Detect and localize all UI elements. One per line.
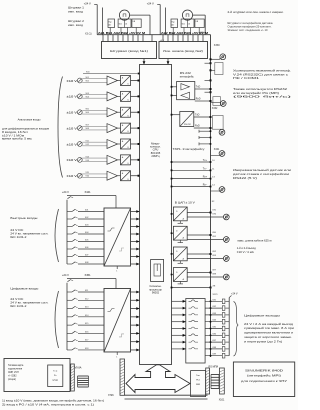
- svg-text:Tx+: Tx+: [203, 159, 208, 162]
- svg-text:X441: X441: [85, 190, 92, 194]
- svg-text:Штурвал 1: Штурвал 1: [68, 6, 85, 10]
- svg-text:одновременном включении и: одновременном включении и: [244, 332, 294, 335]
- svg-text:TxD: TxD: [196, 86, 201, 89]
- svg-text:(умд): (умд): [53, 379, 59, 381]
- svg-text:Лин. шкала (вход №2): Лин. шкала (вход №2): [163, 49, 203, 53]
- svg-text:В ЦАП ± 10 V: В ЦАП ± 10 V: [175, 201, 195, 204]
- svg-text:+24 V: +24 V: [231, 293, 238, 296]
- svg-text:PG МПИ: PG МПИ: [209, 365, 219, 368]
- svg-text:IEC 1131-2: IEC 1131-2: [10, 236, 27, 239]
- svg-text:или интерфейс PG (MPI): или интерфейс PG (MPI): [233, 92, 279, 95]
- svg-text:+24 V: +24 V: [84, 1, 91, 5]
- svg-text:подключения: подключения: [8, 369, 23, 371]
- svg-text:Акт: Акт: [172, 23, 175, 26]
- svg-text:MM: MM: [196, 384, 200, 386]
- svg-text:Rx+: Rx+: [203, 176, 208, 179]
- svg-text:для подключения к ЧПУ: для подключения к ЧПУ: [241, 379, 288, 383]
- svg-text:Цифровые выходы: Цифровые выходы: [244, 313, 280, 317]
- svg-text:2) вход к PG / ±10 V (4 мА, пе: 2) вход к PG / ±10 V (4 мА, перегрузка в…: [2, 403, 94, 406]
- svg-text:ТЗР1. К интерфейсу: ТЗР1. К интерфейсу: [173, 148, 206, 151]
- svg-text:датчик станка с интерфейсом: датчик станка с интерфейсом: [233, 173, 289, 176]
- svg-text:Пул: Пул: [172, 21, 175, 23]
- svg-text:±10 V: ±10 V: [67, 111, 78, 115]
- svg-text:01: 01: [188, 23, 190, 25]
- svg-text:96002: 96002: [152, 291, 160, 295]
- svg-text:±10 V: ±10 V: [67, 95, 78, 99]
- svg-text:+24 V: +24 V: [147, 1, 154, 5]
- svg-text:(9600 бит/с): (9600 бит/с): [233, 96, 292, 99]
- svg-text:X330: X330: [214, 44, 220, 47]
- svg-text:+24 V: +24 V: [199, 32, 206, 35]
- svg-text:601: 601: [182, 23, 185, 25]
- svg-text:TxD: TxD: [195, 114, 200, 117]
- svg-text:+/- 0282: +/- 0282: [8, 376, 17, 378]
- svg-text:X341: X341: [214, 148, 220, 151]
- svg-text:X121: X121: [213, 294, 219, 296]
- svg-text:макс. длина кабеля 625 м: макс. длина кабеля 625 м: [238, 240, 272, 243]
- svg-text:RS422 (5 V): RS422 (5 V): [233, 177, 257, 180]
- svg-text:Tx–: Tx–: [203, 167, 208, 170]
- svg-text:±10 V: ±10 V: [67, 142, 78, 146]
- svg-text:RxD: RxD: [196, 98, 201, 101]
- svg-text:Цифровые входы: Цифровые входы: [10, 287, 38, 291]
- svg-text:V9 8A: V9 8A: [75, 367, 82, 370]
- svg-text:время преобр. 5 мкс: время преобр. 5 мкс: [2, 138, 33, 141]
- svg-text:±10 V: ±10 V: [67, 158, 78, 162]
- svg-text:Аналоговые входы: Аналоговые входы: [18, 118, 41, 122]
- svg-text:X726: X726: [108, 394, 114, 397]
- svg-text:X101: X101: [219, 398, 225, 401]
- svg-text:1) вход ±10 V (макс. диапазон: 1) вход ±10 V (макс. диапазон входа, инт…: [2, 399, 104, 402]
- svg-text:+24 V: +24 V: [62, 273, 69, 277]
- svg-text:имп. вход: имп. вход: [68, 11, 84, 14]
- svg-text:±10 V: ±10 V: [67, 126, 78, 130]
- svg-text:Rx–: Rx–: [203, 184, 208, 187]
- svg-text:ПК / COM1: ПК / COM1: [233, 77, 260, 80]
- svg-text:Пул: Пул: [109, 21, 112, 23]
- svg-text:20МГц: 20МГц: [151, 154, 160, 158]
- svg-text:Отдельная периферия 25-контакт: Отдельная периферия 25-контактн.: [228, 26, 272, 29]
- svg-text:Типовая карта: Типовая карта: [8, 365, 24, 367]
- svg-text:RxD: RxD: [195, 124, 200, 127]
- svg-text:+24 V: +24 V: [62, 190, 69, 194]
- svg-text:RS 232: RS 232: [180, 72, 192, 75]
- svg-text:RS-232: RS-232: [184, 124, 192, 126]
- svg-text:PkJ: PkJ: [196, 379, 200, 381]
- svg-text:24 V / 2 А на каждый выход: 24 V / 2 А на каждый выход: [244, 323, 294, 326]
- svg-text:СМР, VCП: СМР, VCП: [8, 372, 19, 374]
- svg-text:Штурвал (вход №1): Штурвал (вход №1): [110, 49, 148, 53]
- svg-text:защита от короткого замык.: защита от короткого замык.: [244, 336, 293, 339]
- svg-text:интерфейс: интерфейс: [180, 76, 195, 79]
- svg-text:1-й и 2-й выход: 1-й и 2-й выход: [237, 247, 257, 250]
- svg-text:SINUMERIK 840D: SINUMERIK 840D: [245, 369, 283, 373]
- svg-text:Усовершенствованный интерф.: Усовершенствованный интерф.: [233, 70, 291, 73]
- svg-text:±10 V / 4 мА: ±10 V / 4 мА: [237, 251, 254, 254]
- svg-text:±10 V: ±10 V: [67, 174, 78, 178]
- svg-text:Штурвал 2: Штурвал 2: [68, 19, 85, 23]
- svg-text:X332: X332: [212, 107, 218, 110]
- svg-text:01: 01: [125, 23, 127, 25]
- svg-text:A91 B91 A92 B92 +5V 0V M: A91 B91 A92 B92 +5V 0V M: [98, 32, 145, 35]
- svg-text:Акт: Акт: [109, 23, 112, 26]
- svg-text:суммарный ток макс. 8 А при: суммарный ток макс. 8 А при: [244, 327, 295, 330]
- svg-text:(опция): (опция): [8, 379, 16, 381]
- svg-text:V.24 (RS232C) для связи с: V.24 (RS232C) для связи с: [233, 73, 289, 76]
- svg-text:X451: X451: [85, 273, 92, 277]
- svg-text:IEC 1131-2: IEC 1131-2: [10, 305, 27, 308]
- svg-text:имп. вход: имп. вход: [68, 24, 84, 27]
- svg-text:Быстрые входы: Быстрые входы: [10, 216, 37, 220]
- svg-text:601: 601: [119, 23, 122, 25]
- svg-text:и перегрузки (до 2 Гн): и перегрузки (до 2 Гн): [244, 340, 282, 343]
- svg-text:Также используется RS232: Также используется RS232: [233, 88, 288, 91]
- svg-text:Элемент сист. соединения +/- 1: Элемент сист. соединения +/- 10: [228, 29, 269, 32]
- svg-text:2-й штурвал или лин. шкала с и: 2-й штурвал или лин. шкала с инкрем.: [228, 11, 284, 14]
- svg-text:±10 V: ±10 V: [67, 79, 78, 83]
- svg-text:X3 (1): X3 (1): [85, 32, 92, 35]
- svg-text:Штурвал с интерфейсом датчика: Штурвал с интерфейсом датчика: [228, 22, 274, 25]
- svg-text:Инкрементальный датчик или: Инкрементальный датчик или: [233, 169, 292, 172]
- svg-text:(интерфейс MPI): (интерфейс MPI): [247, 374, 281, 378]
